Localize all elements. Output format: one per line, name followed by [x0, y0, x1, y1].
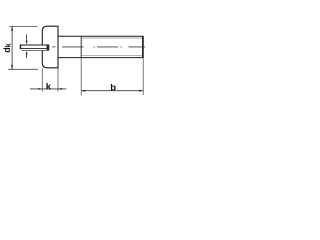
shank top edge: [58, 35, 143, 37]
slot top line: [20, 44, 48, 46]
b arrow pointing right: [139, 90, 143, 92]
head outline: [42, 26, 58, 68]
b extension line right: [142, 58, 144, 95]
k arrow pointing left: [58, 88, 62, 90]
slot outer bottom line: [22, 49, 48, 51]
slot inner bottom line: [20, 47, 47, 49]
b extension line left: [80, 58, 82, 96]
k extension line right: [57, 68, 59, 91]
centerline: [52, 46, 145, 48]
slot left end cap: [20, 45, 22, 50]
k dimension line: [30, 88, 67, 90]
k arrow pointing right: [38, 88, 42, 90]
dk top extension line: [10, 25, 38, 27]
dk dimension line: [11, 26, 13, 69]
thread minor diameter bottom: [81, 55, 142, 57]
shank bottom edge: [58, 57, 143, 59]
dk arrow up: [11, 26, 13, 31]
k extension line left: [41, 68, 43, 91]
svg-text:k: k: [46, 82, 52, 93]
slot width arrow lower: [26, 54, 28, 58]
slot width arrow upper: [26, 35, 28, 42]
dk arrow down: [11, 65, 13, 70]
b dimension line: [81, 90, 143, 92]
slot right end cap: [47, 44, 50, 51]
svg-text:b: b: [110, 82, 116, 93]
b arrow pointing left: [81, 90, 85, 92]
dk bottom extension line: [8, 68, 38, 70]
screw end face: [142, 36, 144, 58]
dk label: [2, 43, 13, 53]
thread minor diameter top: [81, 37, 142, 39]
thread start line: [80, 36, 82, 57]
